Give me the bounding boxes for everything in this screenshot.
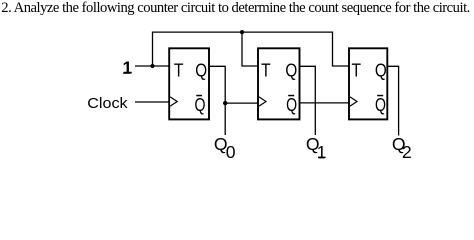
svg-text:Q: Q (375, 95, 386, 115)
wire: U1 Q output right then down to Q0 (209, 66, 225, 135)
svg-text:T: T (351, 60, 361, 80)
flip-flop U1 body (169, 48, 209, 119)
svg-text:2: 2 (402, 142, 412, 162)
flip-flop U3 body (349, 48, 387, 119)
svg-text:0: 0 (226, 142, 236, 162)
svg-text:T: T (174, 60, 184, 80)
svg-text:Q: Q (285, 60, 297, 80)
svg-text:1: 1 (123, 58, 133, 78)
wire: top feedback bus (153, 32, 350, 66)
wire: U2 Q output right then down to Q1 (300, 66, 316, 135)
svg-text:2. Analyze the following count: 2. Analyze the following counter circuit… (1, 0, 470, 16)
svg-text:Clock: Clock (87, 96, 128, 112)
svg-text:T: T (261, 60, 271, 80)
svg-text:Q: Q (375, 60, 387, 80)
flip-flop U2 body (258, 48, 300, 119)
wire: U1 Q to U2 clock input (225, 102, 258, 104)
wire: U2 Qbar output to U3 clock input (300, 102, 349, 104)
svg-text:Q: Q (195, 95, 206, 115)
wire: 1 to U1 T input (135, 65, 169, 67)
svg-text:Q: Q (286, 95, 297, 115)
wire: Clock to U1 clock input (135, 101, 169, 103)
node: junction dot on top bus feeding U2 T (240, 30, 244, 34)
U3 clock triangle (350, 97, 357, 106)
node: junction dot on U1 Q line feeding U2 clock (223, 101, 227, 105)
svg-text:1: 1 (317, 142, 327, 162)
U1 clock triangle (170, 97, 177, 106)
wire: drop from top bus to U2 T input (242, 32, 258, 66)
wire: U3 Q output right then down to Q2 (387, 66, 398, 135)
svg-text:Q: Q (195, 60, 207, 80)
node: junction dot where feedback taps the 1/T wire (150, 64, 154, 68)
U2 clock triangle (259, 97, 266, 106)
